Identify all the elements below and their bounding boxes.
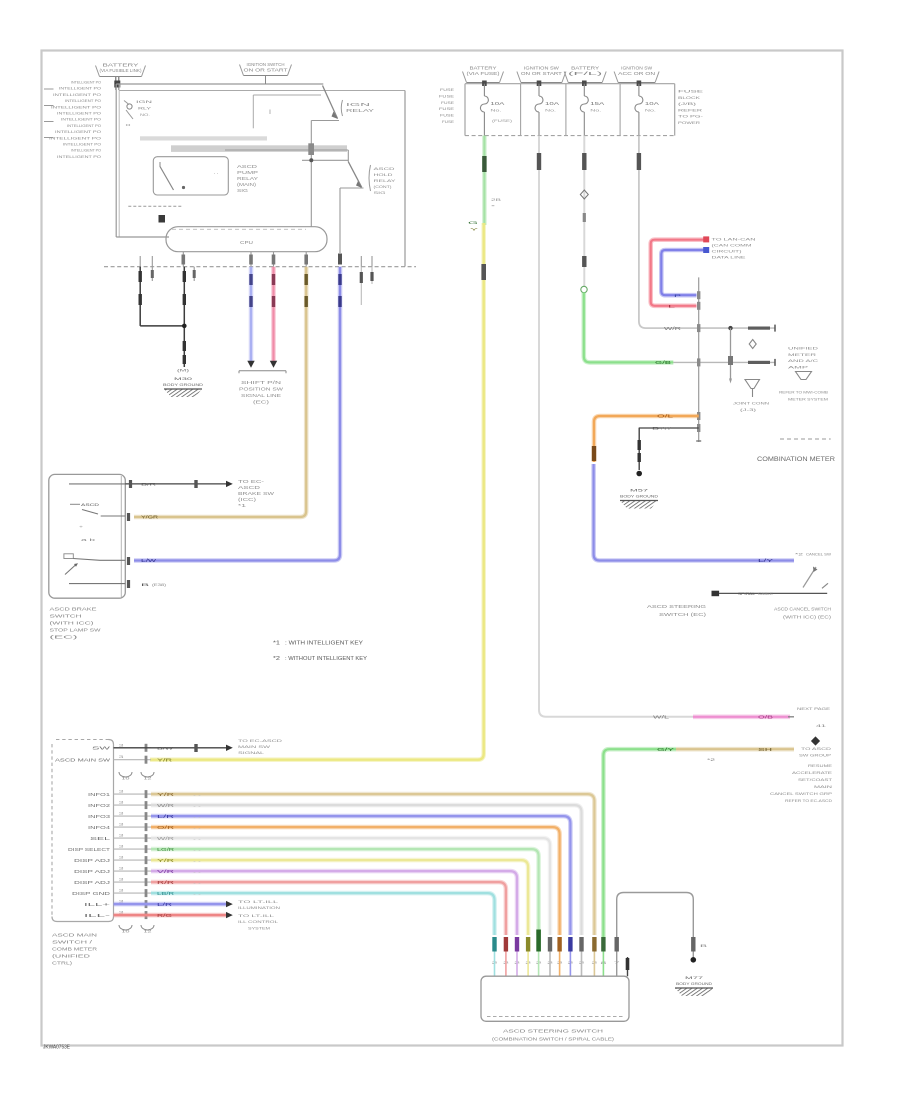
svg-text:ASCD MAIN: ASCD MAIN (52, 933, 97, 938)
svg-text:TO EC-ASCD: TO EC-ASCD (238, 738, 282, 743)
svg-text:LG/R: LG/R (157, 847, 174, 852)
svg-text:Y: Y (470, 227, 479, 232)
svg-text:METER SYSTEM: METER SYSTEM (788, 397, 828, 402)
svg-text:INTELLIGENT PO: INTELLIGENT PO (61, 117, 101, 122)
relay R1 box inside IPDM (153, 157, 228, 195)
svg-text:INTELLIGENT PO: INTELLIGENT PO (53, 92, 101, 97)
svg-text:P: P (674, 293, 682, 298)
CPU pin stubs to boundary (182, 252, 184, 267)
svg-text:DATA LINE: DATA LINE (712, 255, 747, 260)
svg-text:TO EC-: TO EC- (238, 479, 265, 484)
svg-text:..: .. (192, 859, 202, 863)
svg-text:SW: SW (92, 746, 110, 751)
svg-text:ASCD STEERING SWITCH: ASCD STEERING SWITCH (503, 1029, 603, 1034)
fuse F2 (537, 81, 542, 87)
svg-text:SWITCH (EC): SWITCH (EC) (659, 612, 707, 617)
svg-text:RESUME: RESUME (808, 763, 832, 768)
internal wire c (bottom) (69, 583, 125, 585)
gray highlight bar B (171, 145, 347, 152)
svg-text:|: | (269, 109, 271, 114)
svg-text:15A: 15A (590, 101, 604, 106)
svg-text:DISP ADJ: DISP ADJ (74, 869, 110, 874)
svg-text:ASCD: ASCD (237, 164, 257, 169)
svg-text:O/R: O/R (157, 825, 174, 830)
svg-text:(E38): (E38) (152, 582, 167, 587)
meter line continuation right (699, 327, 775, 329)
net line inside IPDM (225, 149, 348, 151)
black wire meter ground (639, 427, 699, 429)
svg-text:No.: No. (490, 109, 501, 113)
green wire pin at connector (601, 937, 605, 952)
svg-text:10A: 10A (545, 101, 559, 106)
wire green from fuse F1 (482, 136, 487, 225)
svg-text:(VIA FUSE): (VIA FUSE) (467, 71, 501, 76)
tan wire continuation to right connector (676, 747, 794, 752)
wire black ground 1 from IPDM pin (139, 267, 141, 326)
svg-text:SWITCH: SWITCH (50, 614, 82, 619)
svg-text:DISP GND: DISP GND (72, 891, 110, 896)
svg-text:NEXT PAGE: NEXT PAGE (797, 706, 831, 711)
svg-text:AND A/C: AND A/C (788, 358, 818, 363)
svg-text:BLOCK: BLOCK (678, 95, 701, 100)
svg-text:(CONT): (CONT) (374, 184, 393, 189)
svg-text:LB/R: LB/R (157, 891, 174, 896)
svg-text:L/Y: L/Y (758, 558, 774, 563)
svg-text:IGN: IGN (136, 99, 152, 104)
svg-text:INTELLIGENT PO: INTELLIGENT PO (57, 111, 101, 116)
switch detail text inside (70, 503, 80, 505)
svg-text:ILL+: ILL+ (84, 902, 112, 907)
svg-text:W/R: W/R (157, 836, 174, 841)
svg-text:RELAY: RELAY (237, 176, 258, 181)
svg-text:INTELLIGENT PO: INTELLIGENT PO (65, 98, 101, 103)
svg-text:IGN: IGN (346, 102, 370, 107)
svg-text:G: G (468, 220, 478, 225)
wire green2 down then right into meter (584, 293, 674, 363)
wire white from fuse F3 (583, 136, 585, 286)
IPDM E/R outer box (115, 84, 117, 237)
gray highlight bar A (140, 136, 267, 140)
svg-text:INFO2: INFO2 (88, 803, 111, 808)
svg-text:3: 3 (119, 878, 124, 882)
svg-text:: WITHOUT INTELLIGENT KEY: : WITHOUT INTELLIGENT KEY (285, 656, 368, 662)
svg-text:ASCD: ASCD (238, 485, 260, 490)
IPDM internal sub box line (252, 95, 254, 128)
svg-text:TO LAN-CAN: TO LAN-CAN (712, 237, 756, 242)
svg-text:M77: M77 (685, 975, 705, 980)
svg-text:ASCD BRAKE: ASCD BRAKE (50, 607, 97, 612)
internal wire a (top) (69, 483, 125, 485)
svg-text:SYSTEM: SYSTEM (248, 927, 270, 931)
svg-text:RELAY: RELAY (374, 178, 397, 183)
right side cup symbol (796, 372, 812, 380)
svg-text:..: .. (192, 815, 202, 819)
dashed separator right (780, 438, 831, 440)
svg-text:METER: METER (788, 352, 816, 357)
svg-text:..: .. (192, 848, 202, 852)
combination meter connector boundary line (698, 277, 700, 442)
svg-text:NO.: NO. (140, 112, 150, 117)
svg-text:SIG: SIG (374, 190, 386, 195)
sub switch rectangle (64, 554, 73, 559)
svg-text:BATTERY: BATTERY (103, 63, 139, 68)
svg-text:Y/R: Y/R (157, 792, 174, 797)
svg-text:SET/COAST: SET/COAST (798, 777, 833, 782)
pin marks at brake switch outputs (127, 580, 130, 588)
svg-text:TO LT-ILL: TO LT-ILL (238, 913, 276, 918)
svg-text:SEL: SEL (90, 836, 112, 841)
svg-text:INFO3: INFO3 (88, 814, 111, 819)
svg-text:..: .. (192, 837, 202, 841)
svg-text:INTELLIGENT PO: INTELLIGENT PO (63, 142, 101, 147)
svg-text:ASCD: ASCD (81, 502, 99, 507)
svg-text:ILL-: ILL- (84, 913, 112, 918)
svg-text:12: 12 (144, 777, 152, 781)
svg-text:REFER TO MWI-COMB: REFER TO MWI-COMB (779, 390, 828, 395)
gray U wire from connector to ground (617, 893, 694, 977)
svg-text:BODY GROUND: BODY GROUND (676, 981, 712, 986)
svg-text:W/R: W/R (664, 326, 681, 331)
svg-text:*1: *1 (273, 641, 280, 647)
svg-text:(EC): (EC) (50, 635, 80, 640)
CPU box inside IPDM (166, 227, 327, 252)
svg-text:DISP SELECT: DISP SELECT (68, 847, 111, 852)
bottom left unit box (meter/ASCD unit) (52, 740, 114, 922)
IPDM E/R bottom dashed boundary (104, 266, 416, 268)
sub switch blade with arrow (65, 565, 76, 575)
CAN H red wire loop (651, 240, 704, 306)
svg-text:ASCD CANCEL SWITCH: ASCD CANCEL SWITCH (774, 607, 831, 612)
svg-text:(VIA FUSIBLE LINK): (VIA FUSIBLE LINK) (100, 68, 143, 73)
svg-text:CIRCUIT): CIRCUIT) (712, 249, 743, 254)
svg-text:JKWA0753E: JKWA0753E (43, 1045, 71, 1051)
wire bundle from unit box to bottom connector (151, 794, 594, 935)
svg-text:..: .. (192, 826, 202, 830)
svg-text:10A: 10A (490, 101, 504, 106)
svg-text:*2: *2 (707, 757, 715, 762)
svg-text:INFO4: INFO4 (88, 825, 111, 830)
svg-text:Y/R: Y/R (157, 858, 174, 863)
svg-text:SIGNAL LINE: SIGNAL LINE (241, 393, 281, 398)
bracket connector marks lower (119, 925, 132, 930)
svg-text:INTELLIGENT PO: INTELLIGENT PO (67, 123, 101, 128)
svg-text:ON OR START: ON OR START (521, 71, 563, 76)
wire pink to shift position (271, 267, 276, 362)
wire black from brake switch to EC arrow (125, 483, 226, 485)
black diamond connector symbol (811, 736, 820, 745)
CAN L blue wire loop (661, 250, 703, 295)
svg-text:INTELLIGENT PO: INTELLIGENT PO (57, 154, 101, 159)
svg-text:HOLD: HOLD (374, 172, 393, 177)
pin stub 1b (151, 267, 153, 281)
svg-text:INTELLIGENT PO: INTELLIGENT PO (51, 104, 101, 109)
svg-text:CTRL): CTRL) (52, 961, 73, 966)
svg-text:DISP ADJ: DISP ADJ (74, 880, 110, 885)
svg-text:(J-3): (J-3) (740, 407, 757, 412)
svg-text:G/B: G/B (655, 360, 672, 365)
svg-text:10A: 10A (645, 101, 659, 106)
svg-text:CANCEL SW: CANCEL SW (806, 552, 831, 557)
svg-text:SH: SH (758, 747, 772, 752)
switch SW2 cancel switch (803, 567, 816, 588)
svg-text:AMP: AMP (788, 364, 809, 369)
svg-text:SPIRAL: SPIRAL (738, 591, 756, 596)
svg-text:(WITH ICC) (EC): (WITH ICC) (EC) (783, 615, 832, 620)
svg-text:3: 3 (119, 790, 124, 794)
svg-text:BATTERY: BATTERY (470, 66, 497, 71)
connector mark battery feed (114, 81, 120, 88)
svg-text:SHIFT P/N: SHIFT P/N (241, 380, 281, 385)
svg-text:FUSE: FUSE (440, 113, 455, 118)
wire blue from IPDM down to ASCD brake switch (134, 267, 340, 561)
svg-text:INTELLIGENT PO: INTELLIGENT PO (71, 80, 101, 85)
svg-text:41: 41 (816, 723, 826, 728)
svg-text:..: .. (213, 170, 219, 175)
svg-text:(FUSE): (FUSE) (492, 119, 513, 123)
svg-text:Y/R: Y/R (157, 757, 172, 762)
svg-text:POWER: POWER (678, 120, 700, 125)
svg-text:STOP LAMP SW: STOP LAMP SW (50, 628, 102, 633)
black pin stub at connector right corner (627, 957, 629, 976)
svg-text:ACC OR ON: ACC OR ON (618, 71, 655, 76)
svg-text:INTELLIGENT PO: INTELLIGENT PO (71, 148, 101, 153)
svg-text:(EC): (EC) (253, 400, 270, 405)
svg-text:*2: *2 (795, 552, 803, 557)
svg-text:3: 3 (119, 812, 124, 816)
svg-text:3: 3 (119, 856, 124, 860)
svg-text:3: 3 (119, 867, 124, 871)
svg-text:ASCD STEERING: ASCD STEERING (647, 604, 706, 609)
svg-text:TO LT-ILL: TO LT-ILL (238, 899, 280, 904)
svg-text:FUSE: FUSE (441, 100, 454, 105)
svg-text:FUSE: FUSE (678, 89, 704, 94)
svg-text:(WITH ICC): (WITH ICC) (50, 621, 95, 626)
pin stub 2b (193, 267, 195, 281)
svg-text:(F/L): (F/L) (568, 71, 604, 76)
svg-text:a b: a b (81, 537, 97, 542)
svg-text:SIG: SIG (237, 188, 248, 193)
svg-text:W/L: W/L (653, 715, 671, 720)
svg-text:..: .. (192, 892, 202, 896)
svg-text:No.: No. (645, 109, 656, 113)
svg-text:10: 10 (122, 930, 130, 934)
joint connector diamond (749, 340, 756, 349)
svg-text:W/R: W/R (157, 803, 174, 808)
svg-text:10: 10 (122, 777, 130, 781)
svg-text:L/R: L/R (157, 814, 174, 819)
blue wire continuation down to spiral cable (594, 464, 794, 561)
relay coil detail top-left of IPDM (124, 101, 129, 105)
svg-text:No.: No. (590, 109, 601, 113)
svg-text:FUSE: FUSE (439, 106, 455, 111)
svg-text:Y/GR: Y/GR (141, 515, 158, 520)
svg-text:SWITCH /: SWITCH / (52, 940, 94, 945)
svg-text:L/W: L/W (141, 558, 156, 563)
svg-text:TO PG-: TO PG- (678, 114, 704, 119)
unit box pin stubs and numbers (114, 747, 152, 749)
joint connector tree vertical (730, 328, 732, 381)
svg-text:..: .. (192, 804, 202, 808)
svg-text:DISP ADJ: DISP ADJ (74, 858, 110, 863)
internal contact wire b (101, 515, 126, 517)
svg-text:IGNITION SW: IGNITION SW (524, 66, 559, 71)
svg-text:ILL CONTROL: ILL CONTROL (238, 919, 279, 924)
svg-text:REFER TO EC-ASCD: REFER TO EC-ASCD (785, 798, 832, 803)
svg-text:COMB METER: COMB METER (52, 947, 97, 952)
wire black ground 2 from IPDM pin (183, 267, 185, 367)
svg-text:No.: No. (545, 109, 556, 113)
svg-text:B/R: B/R (141, 482, 156, 487)
bracket under shift wires (239, 370, 286, 372)
svg-text:TO ASCD: TO ASCD (801, 746, 831, 751)
svg-text:M57: M57 (630, 488, 650, 493)
wire black to arrow (top row) (114, 747, 227, 749)
orange wire into meter connector (594, 416, 699, 462)
junction block on V1 (308, 143, 314, 155)
svg-text:3: 3 (119, 845, 124, 849)
svg-text:CANCEL SWITCH GRP: CANCEL SWITCH GRP (770, 791, 832, 796)
green wire from spiral cable down to switch connector (603, 749, 676, 937)
svg-text:BRAKE SW: BRAKE SW (238, 491, 274, 496)
switch contact S1 top right of IPDM (323, 86, 338, 119)
pin marks under CPU (182, 255, 186, 265)
svg-text:CPU: CPU (240, 240, 253, 245)
svg-text:M30: M30 (174, 376, 194, 381)
fuse F1 (482, 81, 487, 87)
svg-text:(COMBINATION SWITCH / SPIRAL C: (COMBINATION SWITCH / SPIRAL CABLE) (492, 1037, 615, 1042)
svg-text:(J/B): (J/B) (678, 101, 698, 106)
wire tan from IPDM down to ASCD brake switch (134, 267, 306, 517)
white continuation of green2 line (673, 361, 774, 363)
switch contact S2 right middle of IPDM (348, 162, 361, 188)
wire white from fuse F4 down then right (meter power) (639, 136, 699, 329)
pin stubs right under IPDM (360, 267, 362, 305)
svg-text:RLY: RLY (138, 106, 152, 111)
ASCD brake / stop lamp switch box (49, 474, 126, 598)
svg-text:(CAN COMM: (CAN COMM (712, 243, 752, 248)
svg-text:3: 3 (119, 823, 124, 827)
svg-text:V/R: V/R (157, 869, 174, 874)
callout label for S1 (341, 100, 342, 116)
joint connector cup symbol (745, 380, 760, 389)
callout label for S2 (369, 165, 371, 191)
svg-text:12: 12 (144, 930, 152, 934)
svg-text:COMBINATION METER: COMBINATION METER (757, 456, 836, 463)
bottom connector box (spiral cable) (481, 976, 629, 1021)
svg-text:SW GROUP: SW GROUP (799, 753, 832, 758)
svg-text:(UNIFIED: (UNIFIED (52, 954, 90, 959)
wire white from fuse F2 down and right to pink (539, 136, 693, 717)
svg-text:IGNITION SW: IGNITION SW (621, 66, 652, 71)
wire yellow continuation down to bottom-left box (150, 223, 484, 760)
svg-text:3: 3 (119, 889, 124, 893)
svg-text:FUSE: FUSE (440, 87, 455, 92)
svg-text:ILLUMINATION: ILLUMINATION (238, 905, 280, 910)
fuse block dividers (520, 84, 522, 136)
svg-text:CABLE: CABLE (758, 591, 773, 596)
wire battery feed double line (115, 77, 117, 90)
svg-text:INTELLIGENT PO: INTELLIGENT PO (55, 129, 101, 134)
black wire steering switch common (712, 591, 720, 597)
svg-text:B/W: B/W (157, 746, 173, 751)
svg-text:/W: /W (661, 426, 671, 431)
svg-text:INFO1: INFO1 (88, 792, 111, 797)
svg-text:RELAY: RELAY (346, 108, 374, 113)
svg-text:POSITION SW: POSITION SW (239, 387, 283, 392)
svg-text:BODY GROUND: BODY GROUND (163, 382, 203, 387)
svg-text:SIGNAL: SIGNAL (238, 750, 265, 755)
svg-text:PUMP: PUMP (237, 170, 258, 175)
svg-text:IGNITION SWITCH: IGNITION SWITCH (247, 62, 285, 67)
svg-text:JOINT CONN: JOINT CONN (733, 401, 769, 406)
svg-text:B: B (141, 582, 150, 587)
svg-text:BATTERY: BATTERY (571, 66, 599, 71)
junction square J1 (159, 215, 166, 223)
vertical net V1 inside IPDM (310, 121, 312, 227)
fuse F4 (637, 81, 642, 87)
fuse F3 (582, 81, 587, 87)
svg-text:O/L: O/L (657, 414, 675, 419)
svg-text:7: 7 (614, 961, 620, 965)
svg-text:FUSE: FUSE (442, 119, 454, 124)
svg-text:FUSE: FUSE (439, 93, 455, 98)
svg-text:..: .. (192, 793, 202, 797)
wire light-blue to shift position (249, 267, 254, 362)
svg-text:INTELLIGENT PO: INTELLIGENT PO (59, 86, 101, 91)
svg-text:ASCD MAIN SW: ASCD MAIN SW (55, 757, 110, 762)
svg-text:O/B: O/B (758, 715, 774, 720)
svg-text:BODY GROUND: BODY GROUND (620, 494, 658, 499)
svg-text:2B: 2B (491, 198, 502, 202)
svg-text:R/G: R/G (157, 913, 172, 918)
wire red to arrow (illumination-) (114, 913, 227, 918)
leader ticks for IPDM label (44, 88, 54, 90)
svg-text:3: 3 (119, 801, 124, 805)
svg-text:(MAIN): (MAIN) (237, 182, 257, 187)
svg-text:: WITH INTELLIGENT KEY: : WITH INTELLIGENT KEY (285, 641, 364, 647)
svg-text:..: .. (192, 870, 202, 874)
bracket connector marks upper (119, 772, 132, 777)
svg-text:3: 3 (119, 834, 124, 838)
svg-text:..: .. (192, 881, 202, 885)
svg-text:MAIN SW: MAIN SW (238, 744, 270, 749)
svg-text:INTELLIGENT PO: INTELLIGENT PO (49, 135, 101, 140)
svg-text:(ICC): (ICC) (238, 497, 257, 502)
svg-text:ON OR START: ON OR START (244, 67, 289, 72)
svg-text:MAIN: MAIN (814, 784, 832, 789)
svg-text:REFER: REFER (678, 107, 702, 112)
svg-text:UNIFIED: UNIFIED (788, 346, 818, 351)
svg-text:G/Y: G/Y (657, 747, 675, 752)
wire pink continuation to right (693, 714, 790, 719)
svg-text:L/R: L/R (157, 902, 172, 907)
fuse block box (464, 84, 466, 136)
wire blue to arrow (illumination+) (114, 902, 227, 907)
dashed net line D1 (128, 205, 183, 207)
svg-text:ASCD: ASCD (374, 166, 395, 171)
svg-text:3: 3 (119, 743, 124, 747)
svg-text:*2: *2 (273, 656, 280, 662)
svg-text:(M): (M) (177, 369, 191, 373)
svg-text:ACCELERATE: ACCELERATE (792, 770, 832, 775)
svg-text:R/R: R/R (157, 880, 174, 885)
svg-text:B: B (652, 426, 660, 431)
svg-text:3: 3 (119, 755, 124, 759)
